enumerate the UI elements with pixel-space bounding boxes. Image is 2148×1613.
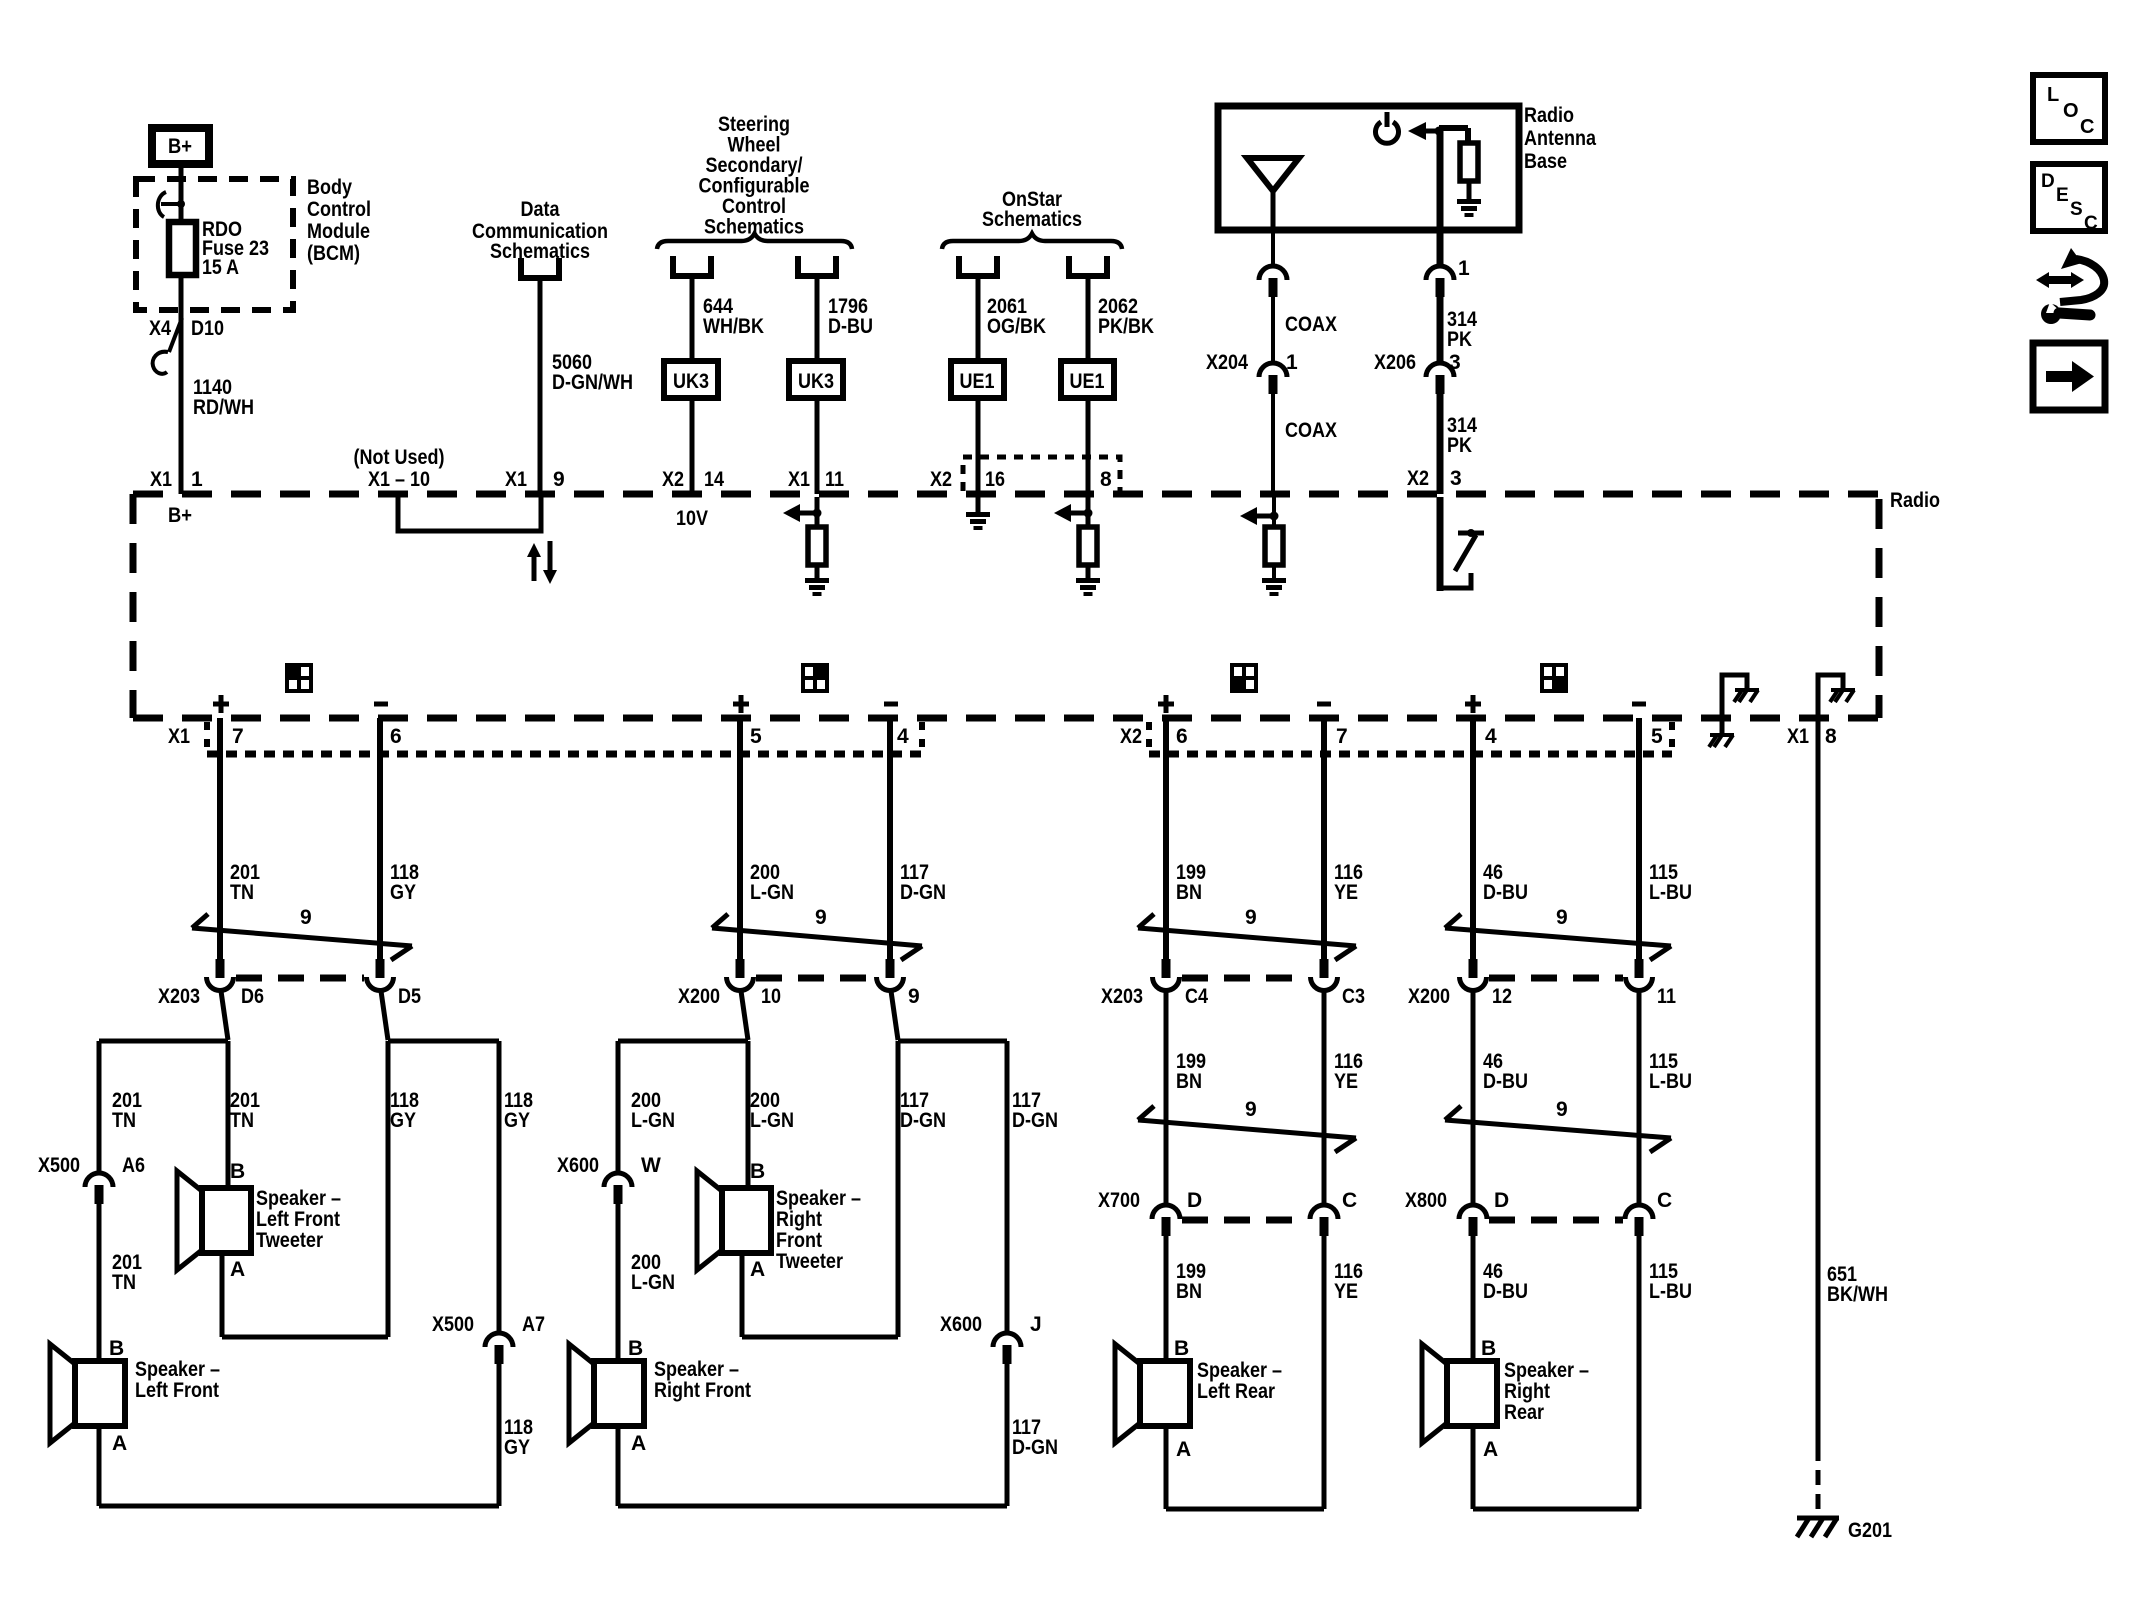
svg-text:X4: X4: [149, 317, 171, 340]
svg-text:X800: X800: [1405, 1189, 1447, 1212]
svg-text:Body: Body: [307, 176, 352, 199]
svg-text:GY: GY: [504, 1436, 530, 1459]
svg-text:C4: C4: [1185, 985, 1208, 1008]
svg-text:A: A: [631, 1432, 646, 1455]
svg-text:X500: X500: [432, 1313, 474, 1336]
svg-text:L-GN: L-GN: [750, 881, 794, 904]
svg-text:L-GN: L-GN: [631, 1109, 675, 1132]
svg-text:11: 11: [825, 468, 844, 491]
svg-text:X500: X500: [38, 1154, 80, 1177]
svg-text:UE1: UE1: [960, 370, 995, 393]
svg-text:A7: A7: [522, 1313, 545, 1336]
svg-text:X1: X1: [168, 725, 190, 748]
svg-text:G201: G201: [1848, 1519, 1892, 1542]
svg-text:4: 4: [897, 725, 909, 748]
svg-text:X203: X203: [158, 985, 200, 1008]
svg-text:YE: YE: [1334, 1070, 1358, 1093]
svg-text:X1 – 10: X1 – 10: [368, 468, 430, 491]
svg-text:L-BU: L-BU: [1649, 1280, 1692, 1303]
svg-text:D-BU: D-BU: [1483, 1070, 1528, 1093]
svg-text:X1: X1: [788, 468, 810, 491]
svg-text:7: 7: [1336, 725, 1348, 748]
svg-text:X600: X600: [557, 1154, 599, 1177]
svg-text:(Not Used): (Not Used): [354, 446, 445, 469]
svg-text:L-GN: L-GN: [750, 1109, 794, 1132]
svg-text:D: D: [1494, 1189, 1509, 1212]
svg-text:Control: Control: [307, 198, 371, 221]
svg-text:8: 8: [1100, 468, 1112, 491]
svg-text:D-GN: D-GN: [900, 1109, 946, 1132]
svg-text:A: A: [1483, 1438, 1498, 1461]
svg-text:OG/BK: OG/BK: [987, 315, 1046, 338]
svg-text:Data: Data: [521, 198, 560, 221]
svg-text:C: C: [2084, 213, 2098, 234]
svg-text:9: 9: [1245, 1098, 1257, 1121]
svg-text:PK: PK: [1447, 328, 1472, 351]
svg-text:TN: TN: [112, 1271, 136, 1294]
svg-text:UE1: UE1: [1070, 370, 1105, 393]
svg-text:Speaker –: Speaker –: [654, 1358, 739, 1381]
svg-text:X2: X2: [1120, 725, 1142, 748]
svg-text:C: C: [1342, 1189, 1357, 1212]
svg-text:D: D: [1187, 1189, 1202, 1212]
svg-text:5: 5: [1651, 725, 1663, 748]
svg-text:X206: X206: [1374, 351, 1416, 374]
svg-text:X2: X2: [930, 468, 952, 491]
svg-text:UK3: UK3: [673, 370, 709, 393]
svg-text:9: 9: [1556, 906, 1568, 929]
svg-text:B: B: [1481, 1337, 1496, 1360]
svg-text:COAX: COAX: [1285, 419, 1337, 442]
svg-text:X600: X600: [940, 1313, 982, 1336]
svg-text:GY: GY: [390, 1109, 416, 1132]
svg-text:B: B: [1174, 1337, 1189, 1360]
svg-text:5: 5: [750, 725, 762, 748]
svg-text:Right: Right: [776, 1208, 822, 1231]
svg-text:Left Front: Left Front: [135, 1379, 219, 1402]
svg-text:WH/BK: WH/BK: [703, 315, 764, 338]
svg-text:B+: B+: [168, 504, 192, 527]
svg-text:X203: X203: [1101, 985, 1143, 1008]
svg-text:D6: D6: [241, 985, 264, 1008]
svg-text:Schematics: Schematics: [490, 240, 590, 263]
svg-text:(BCM): (BCM): [307, 242, 360, 265]
svg-text:Radio: Radio: [1890, 489, 1940, 512]
svg-text:Radio: Radio: [1524, 104, 1574, 127]
svg-text:Left Front: Left Front: [256, 1208, 340, 1231]
svg-text:TN: TN: [230, 1109, 254, 1132]
svg-text:1: 1: [1286, 351, 1298, 374]
svg-text:D5: D5: [398, 985, 421, 1008]
svg-text:6: 6: [1176, 725, 1188, 748]
svg-text:GY: GY: [504, 1109, 530, 1132]
svg-text:A: A: [112, 1432, 127, 1455]
svg-text:Base: Base: [1524, 150, 1567, 173]
svg-text:E: E: [2056, 185, 2069, 206]
svg-text:D-BU: D-BU: [1483, 881, 1528, 904]
svg-text:D-GN: D-GN: [900, 881, 946, 904]
svg-text:RD/WH: RD/WH: [193, 396, 254, 419]
svg-text:X1: X1: [150, 468, 172, 491]
svg-text:1: 1: [1458, 257, 1470, 280]
svg-text:7: 7: [232, 725, 244, 748]
svg-text:C: C: [2080, 116, 2094, 138]
svg-text:X1: X1: [505, 468, 527, 491]
svg-text:4: 4: [1485, 725, 1497, 748]
svg-text:X2: X2: [1407, 467, 1429, 490]
svg-text:D-GN: D-GN: [1012, 1436, 1058, 1459]
svg-text:16: 16: [985, 468, 1005, 491]
svg-text:Speaker –: Speaker –: [256, 1187, 341, 1210]
svg-text:J: J: [1030, 1313, 1042, 1336]
svg-text:A: A: [1176, 1438, 1191, 1461]
svg-text:TN: TN: [112, 1109, 136, 1132]
svg-text:X1: X1: [1787, 725, 1809, 748]
svg-text:D-BU: D-BU: [828, 315, 873, 338]
svg-text:COAX: COAX: [1285, 313, 1337, 336]
svg-text:12: 12: [1492, 985, 1512, 1008]
svg-text:11: 11: [1657, 985, 1676, 1008]
svg-text:9: 9: [1245, 906, 1257, 929]
svg-text:Antenna: Antenna: [1524, 127, 1596, 150]
svg-text:TN: TN: [230, 881, 254, 904]
svg-text:BK/WH: BK/WH: [1827, 1283, 1888, 1306]
svg-text:9: 9: [908, 985, 920, 1008]
svg-text:X2: X2: [662, 468, 684, 491]
svg-text:9: 9: [300, 906, 312, 929]
svg-text:Right: Right: [1504, 1380, 1550, 1403]
svg-text:BN: BN: [1176, 881, 1202, 904]
svg-text:6: 6: [390, 725, 402, 748]
svg-text:8: 8: [1825, 725, 1837, 748]
svg-text:B: B: [230, 1160, 245, 1183]
svg-text:10V: 10V: [676, 507, 708, 530]
svg-text:Tweeter: Tweeter: [776, 1250, 843, 1273]
svg-text:10: 10: [761, 985, 781, 1008]
svg-text:Right Front: Right Front: [654, 1379, 751, 1402]
svg-text:Speaker –: Speaker –: [776, 1187, 861, 1210]
svg-text:O: O: [2063, 100, 2079, 122]
svg-text:A: A: [230, 1258, 245, 1281]
svg-text:S: S: [2070, 199, 2083, 220]
svg-text:BN: BN: [1176, 1070, 1202, 1093]
svg-text:PK: PK: [1447, 434, 1472, 457]
svg-text:X200: X200: [1408, 985, 1450, 1008]
svg-text:YE: YE: [1334, 1280, 1358, 1303]
svg-text:BN: BN: [1176, 1280, 1202, 1303]
svg-text:3: 3: [1450, 467, 1462, 490]
svg-text:9: 9: [1556, 1098, 1568, 1121]
svg-text:D: D: [2041, 171, 2055, 192]
svg-text:YE: YE: [1334, 881, 1358, 904]
svg-text:C3: C3: [1342, 985, 1365, 1008]
svg-text:Schematics: Schematics: [982, 208, 1082, 231]
svg-text:L-BU: L-BU: [1649, 1070, 1692, 1093]
svg-text:9: 9: [815, 906, 827, 929]
svg-text:X200: X200: [678, 985, 720, 1008]
svg-text:B: B: [750, 1160, 765, 1183]
svg-text:1: 1: [191, 468, 203, 491]
svg-text:UK3: UK3: [798, 370, 834, 393]
svg-text:Speaker –: Speaker –: [135, 1358, 220, 1381]
svg-text:A: A: [750, 1258, 765, 1281]
svg-text:W: W: [641, 1154, 661, 1177]
svg-text:D-GN: D-GN: [1012, 1109, 1058, 1132]
svg-text:B: B: [109, 1337, 124, 1360]
svg-text:B: B: [628, 1337, 643, 1360]
svg-text:C: C: [1657, 1189, 1672, 1212]
svg-text:GY: GY: [390, 881, 416, 904]
svg-text:Speaker –: Speaker –: [1504, 1359, 1589, 1382]
svg-text:D-BU: D-BU: [1483, 1280, 1528, 1303]
svg-text:Left Rear: Left Rear: [1197, 1380, 1275, 1403]
svg-text:X700: X700: [1098, 1189, 1140, 1212]
svg-text:Module: Module: [307, 220, 370, 243]
svg-text:L-BU: L-BU: [1649, 881, 1692, 904]
svg-text:15 A: 15 A: [202, 256, 239, 279]
svg-text:X204: X204: [1206, 351, 1248, 374]
svg-text:Speaker –: Speaker –: [1197, 1359, 1282, 1382]
svg-text:L: L: [2047, 84, 2059, 106]
svg-text:14: 14: [704, 468, 724, 491]
svg-text:D-GN/WH: D-GN/WH: [552, 371, 633, 394]
svg-text:Rear: Rear: [1504, 1401, 1544, 1424]
svg-text:D10: D10: [191, 317, 224, 340]
svg-text:9: 9: [553, 468, 565, 491]
svg-text:PK/BK: PK/BK: [1098, 315, 1154, 338]
svg-text:A6: A6: [122, 1154, 145, 1177]
svg-text:Front: Front: [776, 1229, 822, 1252]
svg-text:Tweeter: Tweeter: [256, 1229, 323, 1252]
svg-text:B+: B+: [168, 135, 192, 158]
svg-text:L-GN: L-GN: [631, 1271, 675, 1294]
